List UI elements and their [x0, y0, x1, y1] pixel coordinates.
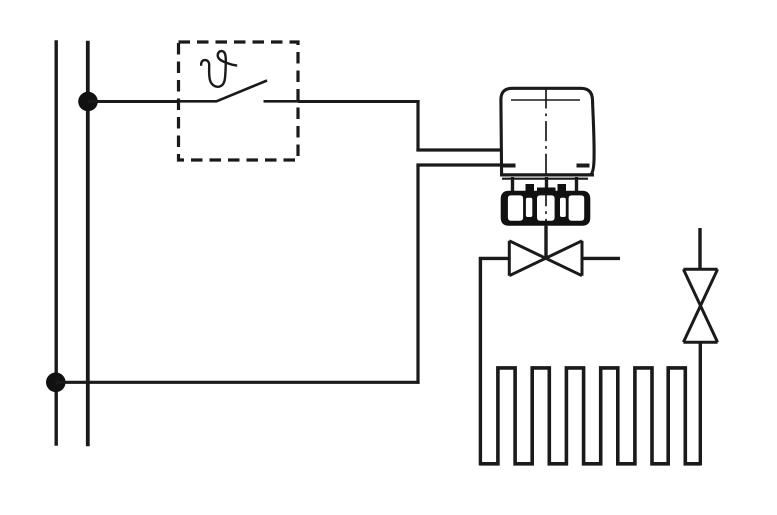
wire: from top junction to thermostat box	[88, 100, 179, 103]
switch: wire to pivot	[179, 100, 218, 103]
actuator: bottom edge	[500, 173, 594, 176]
pipe: bypass valve down to coil	[699, 342, 702, 465]
actuator neck: right leg	[575, 177, 578, 193]
switch: open blade	[217, 81, 268, 102]
actuator neck: right tab	[558, 184, 567, 193]
actuator: center dash-dot axis	[545, 89, 547, 227]
actuator neck: center leg	[545, 177, 548, 193]
wire: right supply bus line L2	[86, 41, 90, 446]
actuator: bottom-right index tick	[577, 164, 590, 168]
wire: thermostat output to corner	[298, 100, 420, 103]
gland nut: dark body with five white lobes	[501, 191, 591, 226]
bypass valve V2: upper pipe stub	[698, 228, 701, 270]
actuator: inner top line	[511, 99, 580, 101]
radiator coil (serpentine heating circuit)	[480, 368, 700, 464]
wire: left supply bus line L1	[55, 40, 58, 445]
wire: corner down toward actuator level	[416, 100, 419, 152]
valve V1: motorized valve hourglass body	[509, 241, 582, 276]
actuator neck: left leg	[511, 177, 514, 193]
pipe: right stub of valve	[582, 257, 620, 260]
wire: return drop to bottom run	[416, 165, 419, 384]
wire: bottom run from left junction	[56, 381, 420, 384]
thermostat symbol: handwritten theta	[201, 51, 237, 87]
switch: fixed contact wire	[264, 100, 299, 103]
actuator: base flange bar	[502, 178, 588, 180]
actuator neck: center tab	[537, 188, 556, 194]
actuator: bottom-left index tick	[503, 164, 516, 168]
actuator neck: left tab	[526, 184, 535, 193]
wire: into actuator (upper)	[416, 148, 501, 151]
bypass valve V2: hourglass body	[683, 269, 717, 342]
node: junction dot on right bus (top)	[78, 92, 98, 112]
pipe: left of valve with elbow down	[480, 258, 509, 465]
thermostat box (dashed enclosure)	[179, 42, 299, 160]
valve stem	[544, 226, 547, 259]
actuator M1: motor head body	[501, 88, 594, 175]
node: junction dot on left bus (bottom)	[46, 373, 66, 393]
wire: actuator return (lower)	[416, 163, 501, 166]
